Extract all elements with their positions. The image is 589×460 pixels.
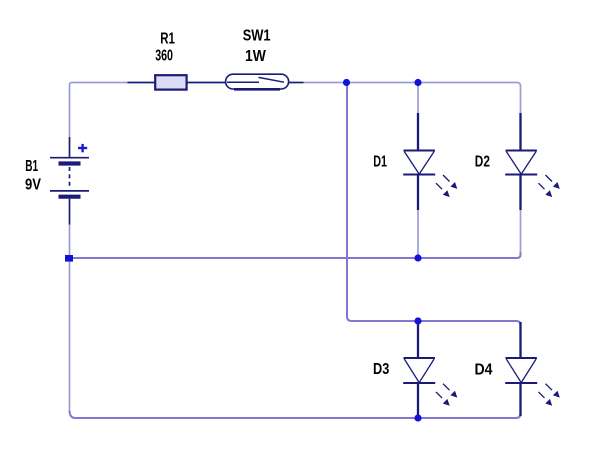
LED D3 xyxy=(403,322,435,416)
node: junction dot mid rail x=418 xyxy=(414,254,421,261)
svg-text:360: 360 xyxy=(155,48,173,65)
battery thin plate 1 xyxy=(50,157,89,159)
node: square connector at battery bottom xyxy=(65,255,73,262)
battery plus sign xyxy=(78,144,87,152)
LED D1 xyxy=(403,113,435,210)
wire: bottom rail y=417.5 xyxy=(70,411,521,419)
D2 top lead xyxy=(519,113,521,152)
svg-text:D1: D1 xyxy=(373,154,387,171)
D2 triangle right side xyxy=(521,152,536,175)
D1 top lead xyxy=(417,113,419,152)
SW1 left contact line xyxy=(227,81,259,83)
switch SW1 xyxy=(226,74,304,89)
D4 cathode bar xyxy=(505,382,537,384)
D4 triangle right side xyxy=(521,359,536,383)
SW1 bottom thick edge xyxy=(234,88,280,91)
D1 bottom lead xyxy=(417,175,419,211)
svg-text:SW1: SW1 xyxy=(243,28,271,45)
D3 triangle left side xyxy=(404,359,419,383)
SW1 blade xyxy=(259,77,285,82)
wire: top rail from SW1 right lead to D2 top corner, down to D2 lead xyxy=(304,83,521,114)
svg-text:D3: D3 xyxy=(373,361,389,378)
battery thick plate 1 xyxy=(59,161,81,165)
SW1 right lead xyxy=(289,82,304,84)
wire: D1 bottom stub xyxy=(417,210,419,259)
D4 bottom lead xyxy=(519,383,521,416)
battery B1 xyxy=(50,137,89,225)
battery dashed center line xyxy=(69,167,71,188)
D3 top lead xyxy=(417,322,419,359)
R1 body xyxy=(155,75,186,89)
D2 cathode bar xyxy=(505,174,537,176)
D1 anode bar (triangle top) xyxy=(404,150,435,152)
wire: vertical x=347 from top rail down and sub rail y=320.5 to D4 corner xyxy=(347,83,521,328)
svg-text:1W: 1W xyxy=(245,48,267,65)
node: junction dot top rail x=347 xyxy=(343,79,350,86)
svg-text:B1: B1 xyxy=(25,158,38,175)
node: junction dot bottom rail x=418 xyxy=(414,414,421,421)
node: junction dot sub rail x=418 xyxy=(414,317,421,324)
D3 cathode bar xyxy=(403,382,435,384)
R1 left lead xyxy=(128,82,156,84)
D1 light arrows xyxy=(436,175,457,197)
svg-text:R1: R1 xyxy=(160,31,175,48)
wire: battery bottom stub to square node xyxy=(69,224,71,255)
SW1 body xyxy=(226,74,289,89)
D1 triangle right side xyxy=(419,152,434,175)
wire: left vertical from square node down to bottom-left corner xyxy=(69,260,71,411)
battery thin plate 2 xyxy=(50,190,89,192)
D3 light arrows xyxy=(436,384,457,406)
svg-text:D2: D2 xyxy=(475,154,490,171)
D4 triangle left side xyxy=(506,359,521,383)
D2 light arrows xyxy=(539,175,560,197)
D1 cathode bar xyxy=(403,174,435,176)
wire: top rail from battery+ corner to R1 left lead xyxy=(70,83,129,138)
LED D4 xyxy=(505,322,537,416)
R1 right lead to SW1 xyxy=(187,82,226,84)
D3 bottom lead xyxy=(417,383,419,416)
D4 top lead xyxy=(519,322,521,359)
resistor R1 xyxy=(128,75,227,89)
wire: D1 top stub xyxy=(417,83,419,114)
LED D2 xyxy=(505,113,537,210)
D3 triangle right side xyxy=(419,359,434,383)
battery thick plate 2 xyxy=(59,195,81,199)
svg-text:9V: 9V xyxy=(25,177,41,194)
D2 anode bar (triangle top) xyxy=(506,150,537,152)
battery bottom lead xyxy=(69,199,71,225)
svg-text:D4: D4 xyxy=(475,361,493,378)
D3 anode bar (triangle top) xyxy=(404,357,435,359)
D2 triangle left side xyxy=(506,152,521,175)
D2 bottom lead xyxy=(519,175,521,211)
D4 light arrows xyxy=(539,384,560,406)
node: junction dot top rail x=418 xyxy=(414,79,421,86)
D1 triangle left side xyxy=(404,152,419,175)
wire: D2 bottom stub xyxy=(520,210,522,253)
battery top lead xyxy=(69,137,71,157)
wire: middle rail y=257.5 from square node to D2 corner xyxy=(70,252,521,258)
D4 anode bar (triangle top) xyxy=(506,357,537,359)
